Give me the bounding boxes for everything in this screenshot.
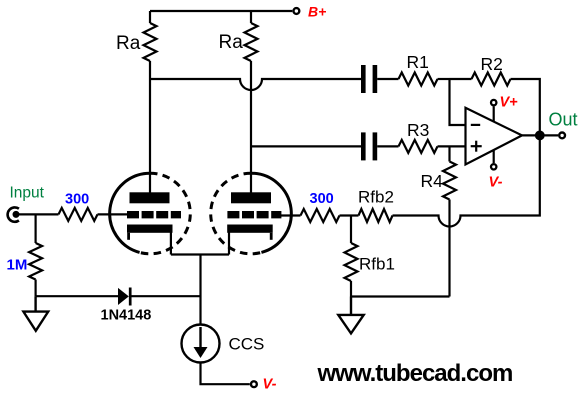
terminal B+ <box>294 8 300 14</box>
triode T1 grid <box>127 211 181 218</box>
wire R3 to non-inverting input <box>438 145 466 147</box>
wire C1 to R1 <box>377 78 398 80</box>
wire Rfb2 to output column with hop <box>393 135 540 226</box>
wire right plate to C2 <box>251 145 361 147</box>
wire right plate column <box>250 11 252 23</box>
triode T1 envelope dashed arc <box>140 173 191 254</box>
triode T2 cathode tick <box>270 233 273 240</box>
wire op-amp output <box>522 134 558 136</box>
triode T2 cathode <box>227 225 273 233</box>
wire R4 top lead <box>448 146 450 161</box>
triode T2 plate <box>231 192 271 203</box>
wire node to R2 <box>450 78 472 80</box>
svg-text:Rfb1: Rfb1 <box>359 255 395 274</box>
wire ground node to diode anode <box>36 295 119 297</box>
svg-text:Input: Input <box>10 185 45 202</box>
svg-text:R4: R4 <box>421 171 444 191</box>
resistor 1M <box>29 243 42 280</box>
svg-text:300: 300 <box>310 191 334 207</box>
terminal V+ opamp <box>491 100 496 105</box>
wire cathode bus <box>171 253 229 255</box>
diode 1N4148 <box>118 288 130 306</box>
wire top B+ rail <box>150 10 292 12</box>
wire R1 to inverting node <box>438 78 450 80</box>
svg-text:V-: V- <box>263 377 277 393</box>
svg-text:1N4148: 1N4148 <box>101 308 152 324</box>
wire 1M bottom lead <box>34 280 36 297</box>
svg-text:Rfb2: Rfb2 <box>358 188 394 207</box>
wire V+ pin <box>493 107 495 122</box>
triode T1 cathode tick <box>127 233 130 240</box>
terminal V- bottom <box>251 381 257 387</box>
wire R2 to output <box>511 79 540 135</box>
node output junction <box>535 131 545 141</box>
svg-text:Ra: Ra <box>219 32 244 53</box>
ground right <box>338 297 363 334</box>
wire Rfb1 bottom lead <box>350 281 352 297</box>
wire 1M top lead <box>34 214 36 243</box>
wire left plate lead <box>149 61 151 193</box>
wire inverting input drop <box>450 79 466 125</box>
svg-text:300: 300 <box>65 192 89 208</box>
wire 300 to left grid <box>98 213 128 215</box>
resistor R4 <box>443 162 456 200</box>
op-amp U1 <box>466 108 523 165</box>
svg-text:Out: Out <box>549 110 578 130</box>
wire 300 to Rfb junction <box>340 214 359 216</box>
wire cathode lead right tube <box>228 233 230 255</box>
capacitor C2 lower <box>361 132 377 160</box>
wire left plate to C1 with hop <box>150 79 361 90</box>
resistor Ra right <box>245 23 258 61</box>
svg-text:www.tubecad.com: www.tubecad.com <box>317 360 513 387</box>
triode T1 cathode <box>127 225 173 233</box>
triode T1 envelope solid arc <box>110 173 150 252</box>
resistor R2 <box>472 73 511 86</box>
terminal V- opamp <box>491 164 496 169</box>
svg-text:CCS: CCS <box>229 335 265 354</box>
wire Rfb1 top lead <box>350 216 352 244</box>
svg-text:V+: V+ <box>500 95 519 111</box>
terminal Input jack <box>8 207 20 221</box>
resistor Rfb1 <box>345 243 358 281</box>
wire CCS to V- terminal <box>201 363 250 385</box>
current source CCS <box>182 325 220 363</box>
wire Rfb1 bottom to R4 bottom <box>351 295 450 297</box>
wire C2 to R3 <box>377 145 398 147</box>
terminal Out <box>559 133 565 139</box>
svg-text:V-: V- <box>489 175 503 191</box>
resistor R1 <box>399 73 438 86</box>
resistor 300 left <box>59 208 98 221</box>
resistor R3 <box>399 140 438 153</box>
resistor Ra left <box>144 23 157 61</box>
wire cathode down to CCS <box>199 255 201 349</box>
svg-text:R3: R3 <box>407 120 429 140</box>
svg-text:1M: 1M <box>7 257 28 274</box>
wire input jack to 300 <box>16 213 59 215</box>
wire left plate column <box>149 11 151 23</box>
wire diode cathode to CCS column <box>130 295 200 297</box>
triode T2 envelope solid arc <box>251 173 291 252</box>
wire right grid lead <box>272 214 301 216</box>
resistor Rfb2 <box>359 209 393 222</box>
wire V- pin <box>493 150 495 163</box>
capacitor C1 upper <box>361 65 377 93</box>
svg-text:Ra: Ra <box>116 33 141 54</box>
triode T2 grid <box>227 211 281 218</box>
wire right plate lead <box>250 61 252 193</box>
wire R4 bottom to ground bus <box>448 200 450 297</box>
svg-text:B+: B+ <box>308 4 326 20</box>
triode T1 plate <box>130 192 170 203</box>
triode T2 envelope dashed arc <box>211 173 262 254</box>
svg-text:R2: R2 <box>481 54 503 74</box>
resistor 300 right <box>301 209 340 222</box>
ground left <box>23 296 48 331</box>
svg-text:R1: R1 <box>407 52 429 72</box>
wire cathode lead left tube <box>170 233 172 255</box>
